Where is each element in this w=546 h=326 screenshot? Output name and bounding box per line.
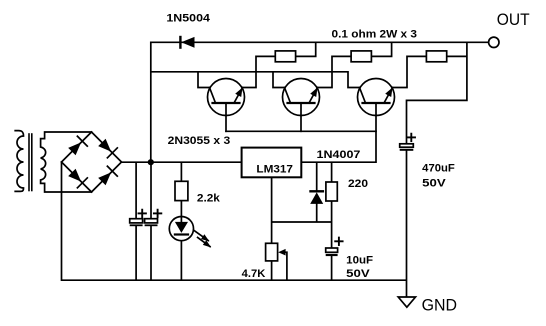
svg-text:10uF: 10uF	[346, 254, 373, 266]
svg-text:50V: 50V	[422, 178, 446, 190]
svg-text:LM317: LM317	[256, 163, 293, 175]
svg-text:0.1 ohm 2W x 3: 0.1 ohm 2W x 3	[332, 28, 418, 40]
svg-text:220: 220	[348, 178, 368, 190]
svg-text:GND: GND	[422, 296, 457, 315]
svg-text:1N5004: 1N5004	[166, 13, 210, 25]
svg-text:50V: 50V	[346, 268, 370, 280]
svg-text:2N3055 x 3: 2N3055 x 3	[168, 135, 231, 147]
svg-text:2.2k: 2.2k	[197, 193, 221, 205]
svg-text:4.7K: 4.7K	[242, 268, 266, 280]
svg-text:OUT: OUT	[497, 10, 530, 29]
svg-text:1N4007: 1N4007	[317, 149, 361, 161]
svg-text:470uF: 470uF	[422, 162, 455, 174]
